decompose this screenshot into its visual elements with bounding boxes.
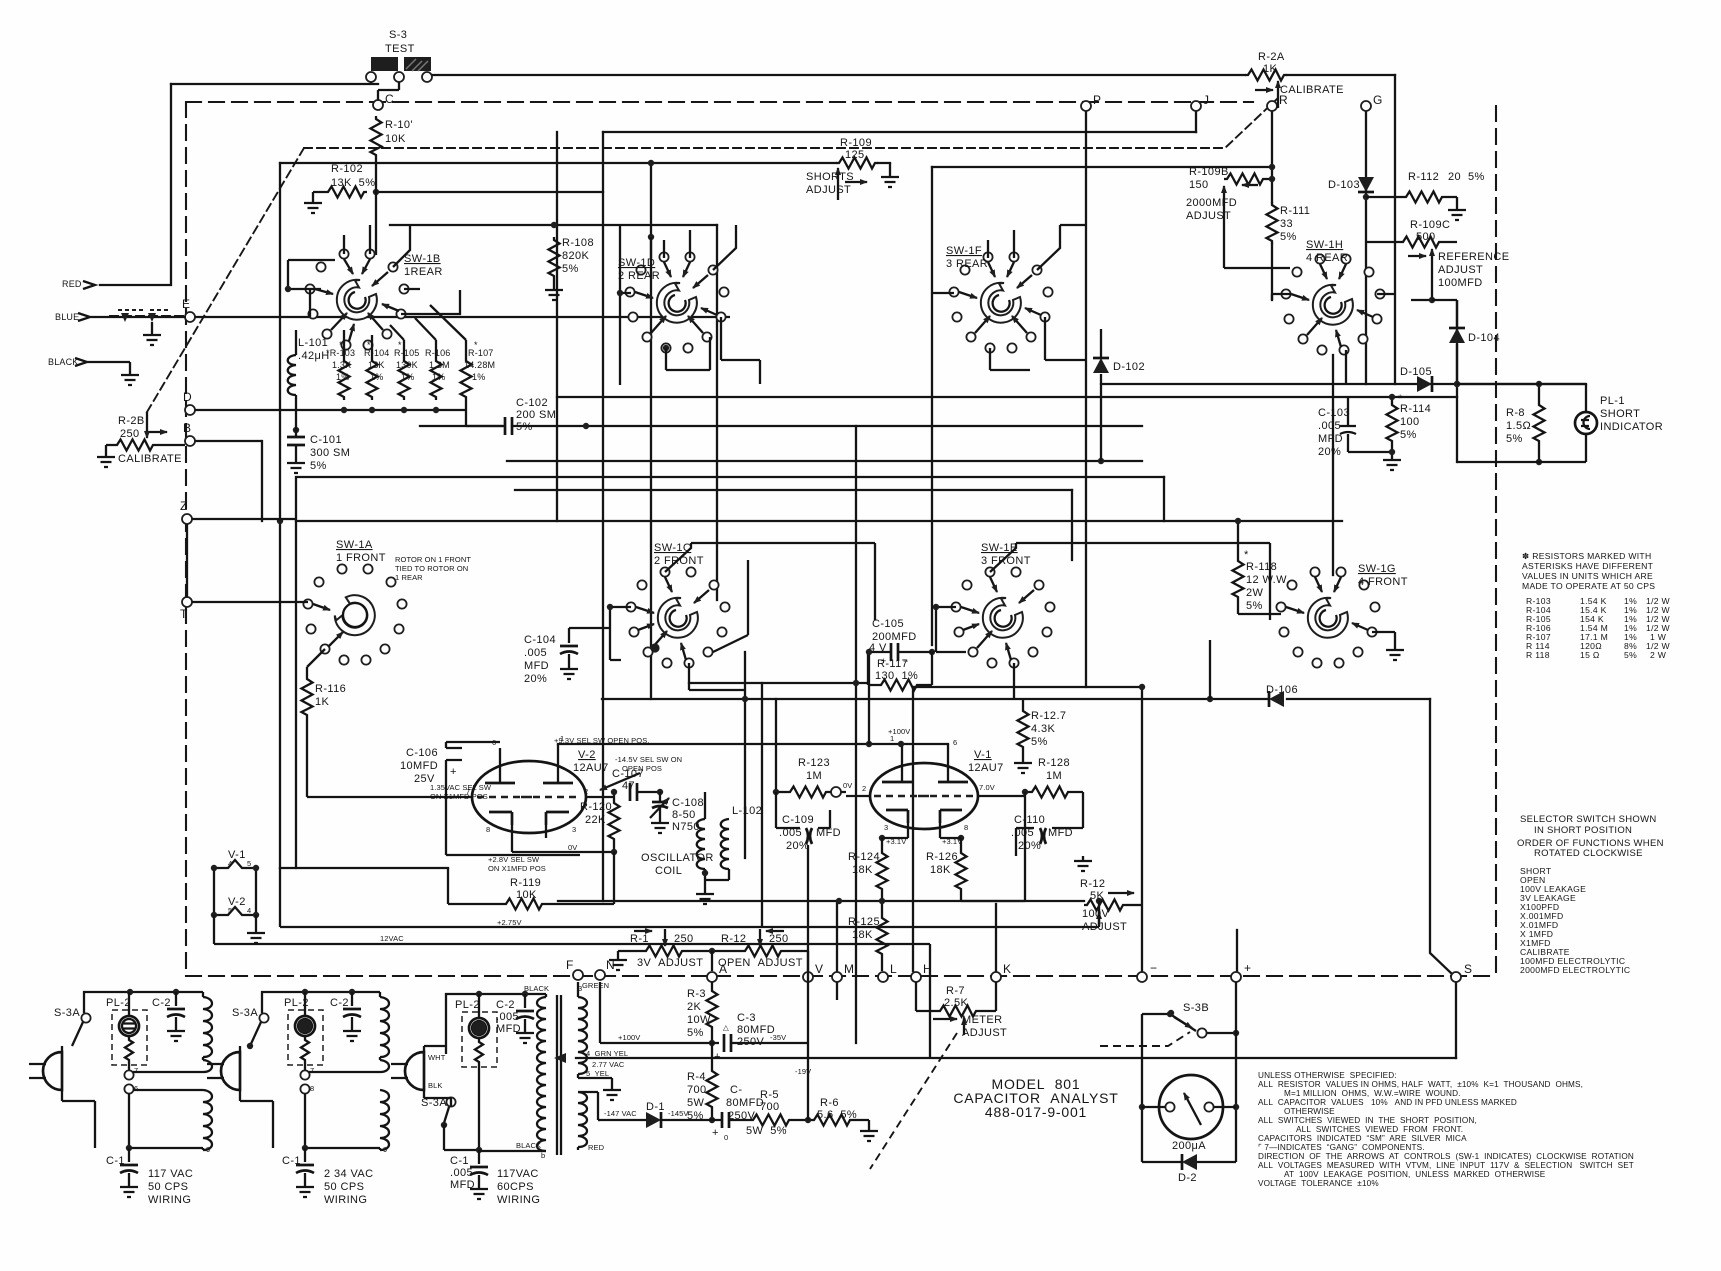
svg-text:R-3: R-3 bbox=[687, 988, 706, 1000]
svg-text:13K 5%: 13K 5% bbox=[331, 177, 375, 189]
svg-text:20%: 20% bbox=[524, 673, 547, 685]
svg-text:C-1: C-1 bbox=[450, 1155, 469, 1167]
svg-text:L-101: L-101 bbox=[298, 337, 328, 349]
svg-text:-19V: -19V bbox=[795, 1067, 811, 1076]
meter M-1 200uA bbox=[1159, 1075, 1223, 1139]
svg-text:+: + bbox=[714, 1051, 721, 1063]
diode D-2 bbox=[1182, 1154, 1197, 1170]
svg-text:0V: 0V bbox=[568, 843, 577, 852]
svg-text:R-118: R-118 bbox=[1246, 561, 1277, 573]
svg-text:REFERENCE: REFERENCE bbox=[1438, 251, 1509, 263]
svg-text:D-103: D-103 bbox=[1328, 179, 1360, 191]
svg-text:+2.75V: +2.75V bbox=[497, 918, 522, 927]
svg-text:AT 100V LEAKAGE POSITION,: AT 100V LEAKAGE POSITION, UNLESS MARKED … bbox=[1284, 1170, 1546, 1179]
switch SW-1C wiring bbox=[665, 543, 875, 620]
svg-text:C: C bbox=[385, 92, 394, 106]
svg-text:117 VAC: 117 VAC bbox=[148, 1168, 193, 1180]
svg-text:1%: 1% bbox=[472, 372, 485, 382]
svg-text:3: 3 bbox=[572, 825, 576, 834]
svg-text:BLACK: BLACK bbox=[516, 1141, 541, 1150]
svg-text:SELECTOR SWITCH SHOWN: SELECTOR SWITCH SHOWN bbox=[1520, 814, 1657, 825]
svg-text:DIRECTION OF THE ARROWS AT: DIRECTION OF THE ARROWS AT CONTROLS (SW-… bbox=[1258, 1152, 1634, 1161]
svg-text:5%: 5% bbox=[1506, 433, 1523, 445]
svg-text:820K: 820K bbox=[562, 250, 590, 262]
svg-text:SW-1H: SW-1H bbox=[1306, 239, 1343, 251]
resistor R-127 4.3K 5% bbox=[1018, 708, 1029, 750]
wire trunk horizontals bbox=[171, 83, 378, 85]
svg-text:R-114: R-114 bbox=[1400, 403, 1431, 415]
junction dots on trunks bbox=[373, 189, 379, 195]
svg-text:METER: METER bbox=[962, 1014, 1003, 1026]
svg-text:5W: 5W bbox=[687, 1097, 705, 1109]
svg-text:ALL CAPACITOR VALUES 10%: ALL CAPACITOR VALUES 10% AND IN PFD UNLE… bbox=[1258, 1098, 1517, 1107]
resistor R-102 13K bbox=[325, 187, 367, 198]
selector switch note bbox=[1517, 814, 1664, 859]
transformer primary coil bbox=[379, 992, 381, 997]
svg-text:ALL SWITCHES VIEWED FROM F: ALL SWITCHES VIEWED FROM FRONT. bbox=[1296, 1125, 1463, 1134]
svg-text:8: 8 bbox=[964, 823, 968, 832]
svg-text:2: 2 bbox=[862, 784, 866, 793]
svg-text:SW-1D: SW-1D bbox=[618, 257, 655, 269]
svg-text:18K: 18K bbox=[852, 929, 873, 941]
svg-text:R-1: R-1 bbox=[630, 933, 649, 945]
svg-text:1REAR: 1REAR bbox=[404, 266, 443, 278]
svg-text:R-107: R-107 bbox=[468, 348, 494, 358]
wiring variant 3 : 117VAC 60CPS + main transformer bbox=[446, 994, 546, 1054]
svg-text:C-: C- bbox=[730, 1084, 742, 1096]
svg-text:100MFD: 100MFD bbox=[1438, 277, 1483, 289]
svg-text:+9.3V SEL SW OPEN POS.: +9.3V SEL SW OPEN POS. bbox=[554, 736, 650, 745]
svg-text:4: 4 bbox=[228, 859, 232, 868]
svg-text:5%: 5% bbox=[516, 421, 533, 433]
svg-text:2000MFD: 2000MFD bbox=[1186, 197, 1237, 209]
switch SW-1F wiring bbox=[988, 225, 1086, 270]
svg-text:*: * bbox=[367, 340, 371, 350]
plug P-1 bbox=[207, 1052, 240, 1090]
svg-text:1M: 1M bbox=[1046, 770, 1062, 782]
svg-text:12VAC: 12VAC bbox=[380, 934, 404, 943]
svg-text:S: S bbox=[1464, 962, 1472, 976]
svg-text:J: J bbox=[1203, 93, 1209, 107]
svg-text:5%: 5% bbox=[562, 263, 579, 275]
svg-text:10K: 10K bbox=[385, 133, 406, 145]
svg-text:ADJUST: ADJUST bbox=[806, 184, 851, 196]
svg-text:250: 250 bbox=[120, 428, 140, 440]
svg-text:C-104: C-104 bbox=[524, 634, 556, 646]
svg-text:R-8: R-8 bbox=[1506, 407, 1525, 419]
svg-text:ALL RESISTOR VALUES IN OHMS,: ALL RESISTOR VALUES IN OHMS, HALF WATT, … bbox=[1258, 1080, 1583, 1089]
transformer primary coil bbox=[202, 992, 204, 997]
svg-text:R-102: R-102 bbox=[331, 163, 363, 175]
rotary switch SW-1C 2 FRONT bbox=[626, 567, 729, 667]
svg-text:SW-1A: SW-1A bbox=[336, 539, 373, 551]
svg-text:C-2: C-2 bbox=[330, 997, 349, 1009]
svg-text:R-128: R-128 bbox=[1038, 757, 1070, 769]
svg-text:R-12: R-12 bbox=[721, 933, 746, 945]
svg-text:3 REAR: 3 REAR bbox=[946, 258, 988, 270]
svg-text:R-109: R-109 bbox=[840, 137, 872, 149]
svg-text:7: 7 bbox=[134, 1066, 138, 1075]
svg-text:R-10': R-10' bbox=[385, 119, 413, 131]
svg-text:WIRING: WIRING bbox=[324, 1194, 367, 1206]
svg-text:C-106: C-106 bbox=[406, 747, 438, 759]
svg-text:VOLTAGE TOLERANCE ±10%: VOLTAGE TOLERANCE ±10% bbox=[1258, 1179, 1379, 1188]
plug P-1 bbox=[391, 1052, 424, 1090]
svg-text:20%: 20% bbox=[1318, 446, 1341, 458]
svg-text:C-2: C-2 bbox=[496, 999, 515, 1011]
svg-text:✽ RESISTORS MARKED WITH: ✽ RESISTORS MARKED WITH bbox=[1522, 551, 1652, 561]
svg-text:.005: .005 bbox=[496, 1011, 519, 1023]
svg-text:5 YEL: 5 YEL bbox=[586, 1069, 609, 1078]
svg-text:R-6: R-6 bbox=[820, 1097, 839, 1109]
svg-text:5%: 5% bbox=[687, 1027, 704, 1039]
ground bbox=[881, 172, 899, 187]
switch SW-1H wiring bbox=[1272, 294, 1291, 300]
svg-text:R-109C: R-109C bbox=[1410, 219, 1450, 231]
svg-text:2K: 2K bbox=[687, 1001, 702, 1013]
svg-text:C-2: C-2 bbox=[152, 997, 171, 1009]
svg-text:R-126: R-126 bbox=[926, 851, 958, 863]
transformer secondary coil bbox=[380, 1090, 389, 1150]
svg-text:.005: .005 bbox=[1318, 420, 1341, 432]
svg-text:20 5%: 20 5% bbox=[1448, 171, 1485, 183]
tap 4 GRN YEL bbox=[554, 1053, 566, 1063]
svg-text:7: 7 bbox=[310, 1066, 314, 1075]
resistor R-118 12 W.W. 2W 5% bbox=[1233, 558, 1244, 600]
svg-text:WHT: WHT bbox=[428, 1053, 446, 1062]
svg-text:5: 5 bbox=[247, 859, 251, 868]
svg-text:1.5Ω: 1.5Ω bbox=[1506, 420, 1531, 432]
rotary switch SW-1G 4 FRONT bbox=[1276, 567, 1379, 667]
svg-text:BLACK: BLACK bbox=[524, 984, 549, 993]
+100V feed bbox=[600, 982, 719, 1043]
svg-text:ALL SWITCHES VIEWED IN THE: ALL SWITCHES VIEWED IN THE SHORT POSITIO… bbox=[1258, 1116, 1477, 1125]
svg-text:6: 6 bbox=[134, 1084, 138, 1093]
svg-text:SW-1G: SW-1G bbox=[1358, 563, 1396, 575]
svg-text:R-2B: R-2B bbox=[118, 415, 145, 427]
svg-text:V-1: V-1 bbox=[974, 749, 992, 761]
svg-text:B: B bbox=[183, 421, 191, 435]
svg-text:C-3: C-3 bbox=[737, 1012, 756, 1024]
diode D-104 bbox=[1449, 328, 1465, 343]
dashed mech link meter diag bbox=[870, 1033, 957, 1169]
svg-text:OSCILLATOR: OSCILLATOR bbox=[641, 852, 714, 864]
svg-text:GREEN: GREEN bbox=[582, 981, 609, 990]
svg-text:3: 3 bbox=[884, 823, 888, 832]
svg-text:R-117: R-117 bbox=[877, 658, 908, 670]
rotary switch SW-1A 1 FRONT bbox=[303, 564, 406, 664]
plug P-1 bbox=[29, 1052, 62, 1090]
svg-text:8-50: 8-50 bbox=[672, 809, 696, 821]
svg-text:+100V: +100V bbox=[618, 1033, 640, 1042]
svg-text:*: * bbox=[1398, 393, 1403, 405]
svg-text:R-120: R-120 bbox=[580, 801, 612, 813]
svg-text:C-110: C-110 bbox=[1014, 814, 1045, 826]
node letters around border bbox=[180, 92, 1472, 982]
svg-text:2: 2 bbox=[584, 787, 588, 796]
svg-text:R-7: R-7 bbox=[946, 985, 965, 997]
inner dash-dot shield line bbox=[304, 98, 1278, 148]
svg-text:2 34 VAC: 2 34 VAC bbox=[324, 1168, 373, 1180]
svg-text:ALL VOLTAGES MEASURED WITH: ALL VOLTAGES MEASURED WITH VTVM, LINE IN… bbox=[1258, 1161, 1634, 1170]
heater wire to transformer bbox=[929, 944, 931, 1058]
content bbox=[100, 75, 1586, 1058]
svg-text:5: 5 bbox=[228, 906, 232, 915]
tube V-2 12AU7 bbox=[472, 761, 586, 833]
svg-text:SW-1F: SW-1F bbox=[946, 245, 982, 257]
diode D-102 bbox=[1093, 358, 1109, 373]
svg-text:F: F bbox=[566, 958, 573, 972]
resistor R-111 33 5% bbox=[1267, 202, 1278, 244]
rotary switch SW-1H 4 REAR bbox=[1281, 254, 1384, 354]
svg-text:C-101: C-101 bbox=[310, 434, 342, 446]
svg-text:MFD: MFD bbox=[1318, 433, 1343, 445]
ground bbox=[304, 198, 322, 213]
svg-text:BLACK: BLACK bbox=[48, 357, 79, 367]
svg-text:+100V: +100V bbox=[888, 727, 910, 736]
svg-text:5%: 5% bbox=[1246, 600, 1263, 612]
svg-text:D-2: D-2 bbox=[1178, 1172, 1197, 1184]
svg-text:OTHERWISE: OTHERWISE bbox=[1284, 1107, 1335, 1116]
lamp PL-1 SHORT INDICATOR bbox=[1575, 412, 1597, 434]
svg-text:R-106: R-106 bbox=[425, 348, 451, 358]
svg-text:R-108: R-108 bbox=[562, 237, 594, 249]
svg-text:K: K bbox=[1003, 962, 1011, 976]
svg-text:250: 250 bbox=[674, 933, 694, 945]
rotary switch SW-1B bbox=[305, 249, 408, 349]
svg-text:R-111: R-111 bbox=[1280, 205, 1310, 217]
svg-text:SHORT: SHORT bbox=[1600, 408, 1640, 420]
svg-text:TIED TO ROTOR ON: TIED TO ROTOR ON bbox=[395, 564, 468, 573]
svg-text:UNLESS OTHERWISE SPECIFIED:: UNLESS OTHERWISE SPECIFIED: bbox=[1258, 1071, 1397, 1080]
svg-text:PL-2: PL-2 bbox=[455, 999, 480, 1011]
svg-text:RED: RED bbox=[62, 279, 82, 289]
svg-text:4 FRONT: 4 FRONT bbox=[1358, 576, 1408, 588]
svg-text:R-12.7: R-12.7 bbox=[1031, 710, 1066, 722]
wiring variant 1 : 117 VAC 50 CPS bbox=[84, 992, 203, 1013]
svg-text:117VAC: 117VAC bbox=[497, 1168, 539, 1180]
svg-text:R-12: R-12 bbox=[1080, 878, 1105, 890]
svg-text:OPEN ADJUST: OPEN ADJUST bbox=[718, 957, 803, 969]
svg-text:100V: 100V bbox=[1082, 908, 1110, 920]
svg-text:ROTATED CLOCKWISE: ROTATED CLOCKWISE bbox=[1534, 848, 1643, 859]
svg-text:SW-1B: SW-1B bbox=[404, 253, 441, 265]
svg-text:18K: 18K bbox=[930, 864, 951, 876]
svg-text:b: b bbox=[541, 1151, 545, 1160]
svg-text:Z: Z bbox=[180, 499, 187, 513]
main transformer primary bbox=[545, 994, 547, 997]
svg-text:R-123: R-123 bbox=[798, 757, 830, 769]
svg-text:5W 5%: 5W 5% bbox=[746, 1125, 787, 1137]
svg-text:R-5: R-5 bbox=[760, 1089, 779, 1101]
svg-text:8: 8 bbox=[310, 1084, 314, 1093]
svg-text:50 CPS: 50 CPS bbox=[148, 1181, 188, 1193]
svg-text:ADJUST: ADJUST bbox=[1438, 264, 1483, 276]
svg-text:22K: 22K bbox=[585, 814, 606, 826]
svg-text:SHORTS: SHORTS bbox=[806, 171, 854, 183]
svg-text:200μA: 200μA bbox=[1172, 1140, 1206, 1152]
svg-text:.005: .005 bbox=[450, 1167, 473, 1179]
svg-text:1.35VAC SEL SW: 1.35VAC SEL SW bbox=[430, 783, 492, 792]
svg-text:L-102: L-102 bbox=[732, 805, 762, 817]
svg-text:COIL: COIL bbox=[655, 865, 682, 877]
svg-text:PL-2: PL-2 bbox=[106, 997, 131, 1009]
svg-text:2 W: 2 W bbox=[1650, 650, 1667, 660]
svg-text:-14.5V SEL SW ON: -14.5V SEL SW ON bbox=[615, 755, 682, 764]
svg-text:80MFD: 80MFD bbox=[726, 1097, 764, 1109]
svg-text:2 REAR: 2 REAR bbox=[618, 270, 660, 282]
svg-text:S-3B: S-3B bbox=[1183, 1002, 1209, 1014]
svg-text:2.77 VAC: 2.77 VAC bbox=[592, 1060, 625, 1069]
svg-text:D-104: D-104 bbox=[1468, 332, 1500, 344]
svg-text:250: 250 bbox=[769, 933, 789, 945]
svg-text:P: P bbox=[1093, 93, 1101, 107]
svg-text:*: * bbox=[339, 340, 343, 350]
svg-text:D-105: D-105 bbox=[1400, 366, 1432, 378]
transformer secondary coil bbox=[203, 1090, 212, 1150]
main transformer secondary lower bbox=[578, 1092, 587, 1147]
svg-text:0: 0 bbox=[724, 1133, 728, 1142]
svg-text:5%: 5% bbox=[1624, 650, 1637, 660]
svg-text:C-103: C-103 bbox=[1318, 407, 1350, 419]
svg-text:7.0V: 7.0V bbox=[979, 783, 995, 792]
wire bbox=[371, 82, 399, 100]
svg-text:9: 9 bbox=[383, 1145, 387, 1154]
MAIN DASHED BORDER bbox=[186, 102, 1496, 976]
bottom bus of resistor bank bbox=[296, 409, 466, 411]
svg-text:8: 8 bbox=[486, 825, 490, 834]
svg-text:RED: RED bbox=[588, 1143, 605, 1152]
svg-text:C-102: C-102 bbox=[516, 397, 548, 409]
svg-text:C-108: C-108 bbox=[672, 797, 704, 809]
svg-text:5%: 5% bbox=[1400, 429, 1417, 441]
svg-text:12AU7: 12AU7 bbox=[573, 762, 609, 774]
svg-text:+: + bbox=[712, 1127, 719, 1139]
svg-text:WIRING: WIRING bbox=[148, 1194, 191, 1206]
svg-text:+: + bbox=[450, 766, 457, 778]
svg-text:C-109: C-109 bbox=[782, 814, 814, 826]
svg-text:ON X1MFD POS: ON X1MFD POS bbox=[430, 792, 488, 801]
svg-text:D-1: D-1 bbox=[646, 1101, 665, 1113]
ground bbox=[143, 330, 161, 345]
svg-text:+: + bbox=[1244, 961, 1251, 975]
Z node wire bbox=[187, 519, 296, 597]
svg-text:E: E bbox=[182, 297, 190, 311]
svg-text:4: 4 bbox=[247, 906, 251, 915]
svg-text:4 REAR: 4 REAR bbox=[1306, 252, 1348, 264]
svg-text:700: 700 bbox=[687, 1084, 707, 1096]
svg-text:CALIBRATE: CALIBRATE bbox=[118, 453, 182, 465]
box around V-2 bbox=[446, 742, 580, 855]
rotary switch SW-1F 3 REAR bbox=[949, 252, 1052, 352]
svg-text:+2.8V SEL SW: +2.8V SEL SW bbox=[488, 855, 540, 864]
resistor R-116 1K bbox=[302, 676, 313, 718]
svg-text:IN SHORT POSITION: IN SHORT POSITION bbox=[1534, 825, 1632, 836]
svg-text:-147 VAC: -147 VAC bbox=[604, 1109, 637, 1118]
svg-text:2 FRONT: 2 FRONT bbox=[654, 555, 704, 567]
svg-text:.42μH: .42μH bbox=[298, 350, 330, 362]
svg-text:18K: 18K bbox=[852, 864, 873, 876]
svg-text:5%: 5% bbox=[1031, 736, 1048, 748]
resistor R-114 100 5% bbox=[1387, 402, 1398, 444]
svg-text:20%: 20% bbox=[1018, 840, 1041, 852]
svg-text:R-116: R-116 bbox=[315, 683, 346, 695]
svg-text:R 118: R 118 bbox=[1526, 650, 1550, 660]
svg-text:*: * bbox=[1244, 549, 1249, 561]
rotary switch SW-1E 3 FRONT bbox=[951, 567, 1054, 667]
svg-text:D-102: D-102 bbox=[1113, 361, 1145, 373]
resistor R-108 820K bbox=[549, 237, 560, 279]
svg-text:R-109B: R-109B bbox=[1189, 166, 1229, 178]
svg-text:L: L bbox=[890, 962, 897, 976]
svg-text:ADJUST: ADJUST bbox=[962, 1027, 1007, 1039]
title MODEL 801 bbox=[953, 1076, 1118, 1120]
svg-text:VALUES IN UNITS WHICH ARE: VALUES IN UNITS WHICH ARE bbox=[1522, 571, 1653, 581]
svg-text:TEST: TEST bbox=[385, 43, 415, 55]
svg-text:50 CPS: 50 CPS bbox=[324, 1181, 364, 1193]
svg-text:100: 100 bbox=[1400, 416, 1420, 428]
svg-text:4 GRN YEL: 4 GRN YEL bbox=[586, 1049, 628, 1058]
svg-text:⌜ 7—INDICATES “GANG” COMPONE: ⌜ 7—INDICATES “GANG” COMPONENTS. bbox=[1258, 1143, 1425, 1152]
switch wiring SW-1B bbox=[344, 225, 410, 267]
svg-text:R-124: R-124 bbox=[848, 851, 880, 863]
svg-text:6: 6 bbox=[953, 738, 957, 747]
resistor R-120 22K bbox=[609, 800, 620, 842]
svg-text:200 SM: 200 SM bbox=[516, 409, 556, 421]
transformer core bbox=[557, 995, 561, 1155]
svg-text:9: 9 bbox=[206, 1145, 210, 1154]
svg-text:4.3K: 4.3K bbox=[1031, 723, 1055, 735]
svg-text:INDICATOR: INDICATOR bbox=[1600, 421, 1663, 433]
capacitor C-101 300 SM bbox=[293, 427, 299, 433]
svg-text:5%: 5% bbox=[1280, 231, 1297, 243]
svg-text:*: * bbox=[474, 340, 478, 350]
svg-text:C-107: C-107 bbox=[612, 768, 644, 780]
svg-text:T: T bbox=[180, 607, 188, 621]
svg-text:R-2A: R-2A bbox=[1258, 51, 1285, 63]
svg-text:3V ADJUST: 3V ADJUST bbox=[637, 957, 703, 969]
svg-text:300 SM: 300 SM bbox=[310, 447, 350, 459]
switch SW-1D wiring bbox=[664, 225, 736, 270]
svg-text:47: 47 bbox=[622, 780, 635, 792]
switch SW-1G wiring bbox=[1372, 632, 1395, 645]
svg-text:S-3: S-3 bbox=[389, 29, 407, 41]
svg-text:R-119: R-119 bbox=[510, 877, 541, 889]
svg-text:M: M bbox=[844, 962, 854, 976]
svg-text:CAPACITORS INDICATED “SM” A: CAPACITORS INDICATED “SM” ARE SILVER MIC… bbox=[1258, 1134, 1467, 1143]
svg-text:D: D bbox=[183, 390, 192, 404]
rotary switch SW-1D 2 REAR bbox=[625, 252, 728, 352]
svg-text:1K: 1K bbox=[315, 696, 330, 708]
svg-text:12AU7: 12AU7 bbox=[968, 762, 1004, 774]
svg-text:R-4: R-4 bbox=[687, 1071, 706, 1083]
svg-text:700: 700 bbox=[760, 1101, 780, 1113]
dashed diagonal mechanical link bbox=[147, 148, 304, 412]
resistor R-101 10K bbox=[371, 116, 382, 158]
svg-text:−: − bbox=[1150, 961, 1157, 975]
svg-text:2000MFD ELECTROLYTIC: 2000MFD ELECTROLYTIC bbox=[1520, 965, 1630, 975]
svg-text:BLUE: BLUE bbox=[55, 312, 79, 322]
notes block bbox=[1258, 1071, 1634, 1188]
svg-text:10MFD: 10MFD bbox=[400, 760, 438, 772]
svg-text:1 FRONT: 1 FRONT bbox=[336, 552, 386, 564]
svg-text:1M: 1M bbox=[806, 770, 822, 782]
svg-text:-35V: -35V bbox=[770, 1033, 786, 1042]
svg-text:G: G bbox=[1373, 93, 1382, 107]
svg-text:488-017-9-001: 488-017-9-001 bbox=[985, 1104, 1087, 1120]
V/M/L/H/K node stubs below rail bbox=[836, 982, 838, 1000]
svg-text:WIRING: WIRING bbox=[497, 1194, 540, 1206]
